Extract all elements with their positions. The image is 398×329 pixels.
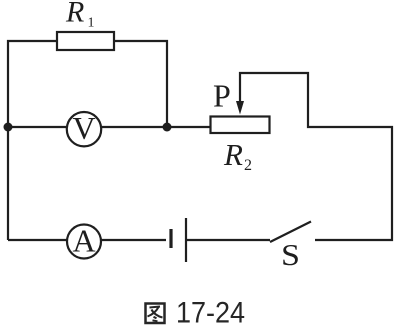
svg-text:S: S bbox=[281, 238, 300, 272]
svg-text:2: 2 bbox=[244, 157, 252, 174]
svg-text:17-24: 17-24 bbox=[176, 296, 245, 329]
svg-text:P: P bbox=[213, 78, 231, 114]
svg-text:R: R bbox=[223, 137, 243, 172]
svg-text:R: R bbox=[65, 0, 84, 29]
svg-text:A: A bbox=[72, 223, 95, 259]
svg-text:V: V bbox=[72, 110, 95, 146]
svg-text:1: 1 bbox=[88, 16, 95, 31]
